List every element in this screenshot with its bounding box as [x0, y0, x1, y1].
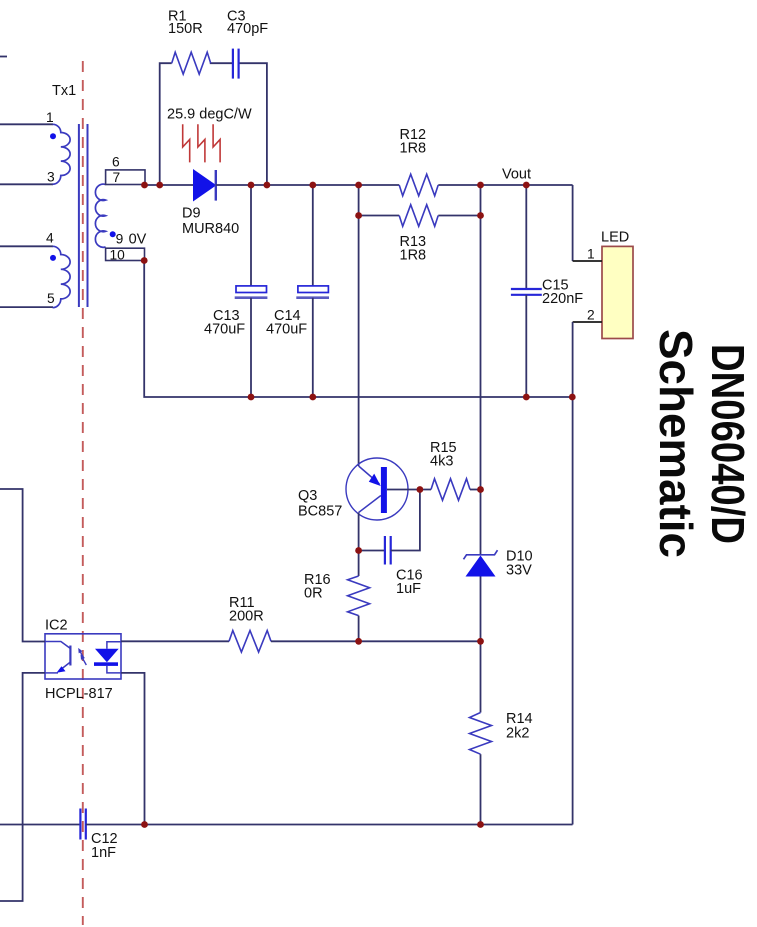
junction Vout C15: [523, 182, 530, 189]
wire R11 to R16 node: [271, 640, 359, 642]
wire R14 bottom: [480, 754, 482, 824]
junction C15 bottom: [523, 394, 530, 401]
thermal resistance symbol 25.9 degC/W: [167, 107, 252, 163]
wire snubber right vertical: [238, 63, 267, 185]
svg-text:Tx1: Tx1: [52, 83, 76, 99]
capacitor C15: [511, 185, 583, 397]
junction R13 right: [477, 212, 484, 219]
capacitor C16: [359, 490, 423, 598]
snubber loop wires: [160, 63, 267, 185]
transformer Tx1: [0, 83, 147, 308]
svg-text:BC857: BC857: [298, 504, 342, 520]
wire C16 left: [359, 550, 385, 552]
diode D9: [182, 170, 239, 237]
svg-text:4: 4: [46, 231, 54, 246]
svg-text:470uF: 470uF: [204, 322, 245, 338]
svg-text:150R: 150R: [168, 21, 203, 37]
wire IC2 cathode pin down: [121, 673, 145, 825]
wire R14 top: [480, 641, 482, 712]
wire C16 right to base node: [391, 490, 420, 551]
svg-text:1uF: 1uF: [396, 581, 421, 597]
svg-text:200R: 200R: [229, 609, 264, 625]
capacitor C3: [227, 9, 268, 79]
resistor R12: [399, 127, 438, 196]
LED pin 1 stub: [573, 260, 602, 262]
wire primary pin 3 lead: [0, 183, 53, 185]
wire LED pin2 down: [572, 322, 574, 825]
svg-text:220nF: 220nF: [542, 291, 583, 307]
svg-text:25.9 degC/W: 25.9 degC/W: [167, 107, 252, 123]
junction snubber right: [264, 182, 271, 189]
wire C13 bottom: [250, 298, 252, 397]
pins 9/10 short box: [106, 248, 145, 260]
Tx1 core line left: [78, 124, 80, 307]
isolation barrier dashed line: [82, 61, 84, 925]
svg-text:0R: 0R: [304, 586, 323, 602]
junction R14 bottom rail: [477, 821, 484, 828]
wire bottom rail right of C12: [86, 824, 573, 826]
svg-text:10: 10: [110, 247, 126, 262]
svg-text:3: 3: [47, 170, 55, 185]
wire IC2 emitter pin to bottom left: [0, 673, 45, 901]
junction pin10 corner: [141, 257, 148, 264]
svg-text:1R8: 1R8: [400, 248, 427, 264]
Tx1 polarity dot pin1: [50, 133, 56, 139]
wire snubber R1 to C3: [210, 62, 233, 64]
wire right branch x480.5 down to R15: [480, 185, 482, 490]
wire primary pin 1 lead: [0, 123, 53, 125]
capacitor C14: [266, 185, 329, 397]
svg-text:470uF: 470uF: [266, 322, 307, 338]
junction Q3 collector C16: [355, 547, 362, 554]
svg-text:HCPL-817: HCPL-817: [45, 686, 113, 702]
wire C14 bottom: [312, 298, 314, 397]
wire main rail from pin7 to D9 anode: [145, 184, 194, 186]
wire D10 top: [480, 490, 482, 555]
wire C13 top: [250, 185, 252, 286]
resistor R16: [304, 572, 370, 641]
wire Vout corner down to LED pin1: [572, 185, 574, 261]
wire left branch x358.6 down to Q3: [358, 185, 360, 466]
svg-text:D9: D9: [182, 206, 201, 222]
wire main rail R12 right to corner: [438, 184, 572, 186]
wire main rail D9 cathode to R12: [216, 184, 399, 186]
wire snubber left vertical: [160, 63, 172, 185]
IC2 light arrows: [80, 651, 84, 658]
wire R13 branch right: [438, 215, 480, 217]
junction LED pin2 rail: [569, 394, 576, 401]
svg-text:4k3: 4k3: [430, 454, 453, 470]
svg-text:5: 5: [47, 291, 55, 306]
svg-text:33V: 33V: [506, 563, 532, 579]
Tx1 polarity dot pin4: [50, 255, 56, 261]
transistor Q3: [298, 458, 408, 520]
wire D10 bottom: [480, 577, 482, 642]
svg-text:1nF: 1nF: [91, 845, 116, 861]
resistor R14: [470, 641, 533, 824]
Tx1 secondary winding 7-9: [95, 184, 105, 247]
wire R13 branch left: [359, 215, 400, 217]
svg-text:6: 6: [112, 155, 120, 170]
wire R16 bottom: [358, 616, 360, 642]
junction opto cathode rail: [141, 821, 148, 828]
junction C14 top: [309, 182, 316, 189]
wire Q3 base to R15: [387, 489, 431, 491]
wire C15 bottom: [525, 295, 527, 397]
svg-text:1R8: 1R8: [400, 141, 427, 157]
junction C16 base node: [417, 486, 424, 493]
svg-text:Q3: Q3: [298, 488, 317, 504]
junction R16 bottom: [355, 638, 362, 645]
capacitor C12: [80, 809, 117, 862]
Tx1 primary winding 4-5: [53, 246, 71, 307]
Tx1 polarity dot pin9: [110, 231, 116, 237]
svg-text:470pF: 470pF: [227, 21, 268, 37]
svg-text:DN06040/D: DN06040/D: [702, 344, 754, 544]
svg-text:IC2: IC2: [45, 618, 68, 634]
svg-text:0V: 0V: [129, 232, 147, 248]
resistor R15: [430, 440, 481, 500]
pins 6/7 short box: [106, 170, 145, 185]
svg-text:7: 7: [113, 170, 121, 185]
wire primary pin 5 lead: [0, 306, 53, 308]
Q3 collector diagonal: [359, 496, 381, 513]
svg-text:LED: LED: [601, 230, 629, 246]
LED pin 2 stub: [573, 321, 602, 323]
wire R15 right: [470, 489, 481, 491]
junction R15 right: [477, 486, 484, 493]
junction C14 bottom: [309, 394, 316, 401]
wire C15 top: [525, 185, 527, 289]
svg-text:MUR840: MUR840: [182, 221, 239, 237]
capacitor C13: [204, 185, 267, 397]
wire IC2 anode pin to R11: [121, 640, 229, 642]
optocoupler IC2: [45, 618, 121, 703]
Tx1 core line right: [87, 124, 89, 307]
wire top-left edge stub: [0, 56, 7, 58]
svg-text:Vout: Vout: [502, 167, 531, 183]
junction R13 left: [355, 212, 362, 219]
connector LED: [573, 230, 633, 339]
zener diode D10: [464, 490, 533, 642]
svg-text:2: 2: [587, 308, 595, 323]
junction C13 bottom: [248, 394, 255, 401]
junction pin7 rail: [141, 182, 148, 189]
wire C14 top: [312, 185, 314, 286]
svg-text:2k2: 2k2: [506, 726, 529, 742]
IC2 phototransistor: [69, 646, 71, 666]
wire R16 node to D10 node: [359, 640, 481, 642]
svg-text:9: 9: [116, 232, 124, 247]
svg-text:Schematic: Schematic: [650, 329, 702, 558]
resistor R1: [168, 9, 211, 75]
wire primary pin 4 lead: [0, 245, 53, 247]
svg-text:1: 1: [587, 247, 595, 262]
junction snubber left: [156, 182, 163, 189]
wire bottom rail left of C12: [0, 824, 80, 826]
junction R12 left: [355, 182, 362, 189]
wire Q3 collector down: [358, 513, 360, 577]
resistor R11: [229, 595, 271, 652]
wire pin10 down to 0V rail: [144, 261, 572, 398]
resistor R13: [399, 205, 438, 264]
Tx1 primary winding 1-3: [53, 124, 71, 184]
junction R12 right: [477, 182, 484, 189]
Q3 emitter diagonal: [359, 466, 380, 484]
junction C13 top: [248, 182, 255, 189]
wire IC2 collector pin to left edge: [0, 489, 45, 642]
IC2 LED: [107, 642, 121, 649]
junction D10 anode: [477, 638, 484, 645]
svg-text:1: 1: [46, 110, 54, 125]
